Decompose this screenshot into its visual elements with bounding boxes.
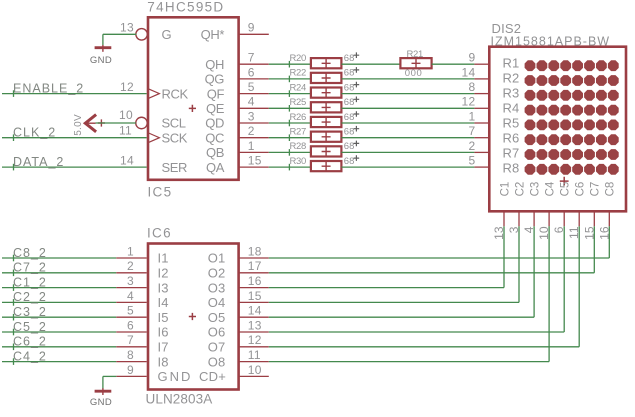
- resistor R28 value 68: [344, 141, 359, 153]
- wire IC6 O6 to display column pin 6: [269, 226, 564, 332]
- svg-text:14: 14: [462, 65, 476, 79]
- svg-text:R21: R21: [407, 49, 424, 60]
- svg-text:I1: I1: [158, 251, 169, 266]
- svg-text:QE: QE: [206, 101, 225, 116]
- wire R27 to display pin 7: [341, 137, 474, 139]
- IC5 pin 11 SCK clock chevron: [149, 133, 160, 142]
- resistor R26: [311, 117, 342, 127]
- resistor R27 value 68: [344, 126, 359, 138]
- resistor R28: [311, 146, 342, 156]
- display row R7 LED dots: [525, 149, 619, 160]
- svg-text:C1: C1: [499, 182, 511, 197]
- IC5 pin 4 QE stub: [239, 107, 269, 109]
- IC6 pin 1 I1 stub: [116, 257, 146, 259]
- svg-text:4: 4: [248, 95, 255, 109]
- svg-text:O1: O1: [208, 251, 226, 266]
- svg-text:68: 68: [344, 68, 355, 79]
- svg-text:R7: R7: [502, 145, 519, 160]
- svg-text:I4: I4: [158, 295, 169, 310]
- wire R22 to display pin 14: [341, 78, 474, 80]
- IC5 pin 2 QC stub: [239, 137, 269, 139]
- svg-text:10: 10: [248, 363, 262, 377]
- display row R4 LED dots: [525, 105, 619, 116]
- wire IC6 O7 to display column pin 11: [269, 226, 579, 346]
- wire IC5 QE to resistor R25: [269, 105, 311, 112]
- svg-text:I3: I3: [158, 280, 169, 295]
- supply +5.0V arrow symbol: [73, 114, 105, 136]
- IC5 pin 12 RCK clock chevron: [149, 89, 160, 98]
- transistor array IC6 ULN2803A box: [148, 244, 239, 390]
- display row R2 LED dots: [525, 75, 619, 86]
- svg-text:C3: C3: [529, 182, 541, 197]
- wire IC6 O5 to display column pin 4: [269, 226, 534, 317]
- IC6 pin 3 I3 stub: [116, 287, 146, 289]
- svg-text:C7_2: C7_2: [13, 261, 47, 275]
- svg-text:C3_2: C3_2: [13, 305, 47, 319]
- ground GND2 symbol: [90, 388, 112, 408]
- svg-text:C8_2: C8_2: [13, 246, 47, 260]
- IC5 origin cross: [189, 105, 196, 112]
- IC6 pin 11 O8 stub: [239, 361, 269, 363]
- svg-text:68: 68: [344, 97, 355, 108]
- wire GND to IC5 pin 13: [103, 34, 136, 45]
- svg-text:GND: GND: [158, 369, 193, 384]
- wire IC6 O2 to display column pin 15: [269, 226, 595, 272]
- display origin cross: [560, 177, 569, 186]
- svg-text:C7: C7: [590, 182, 602, 197]
- wire IC6 O1 to display column pin 16: [269, 226, 610, 258]
- svg-text:I5: I5: [158, 310, 169, 325]
- svg-text:R5: R5: [502, 116, 519, 131]
- IC6 pin 10 CD+ stub: [239, 375, 269, 377]
- wire IC5 QC to resistor R27: [269, 134, 311, 141]
- svg-text:68: 68: [344, 53, 355, 64]
- wire R24 to display pin 8: [341, 93, 474, 95]
- svg-text:2: 2: [469, 139, 476, 153]
- display row R6 LED dots: [525, 134, 619, 145]
- wire net C8_2: [2, 257, 116, 259]
- svg-text:6: 6: [127, 318, 134, 332]
- wire net CLK_2: [2, 137, 147, 139]
- svg-text:8: 8: [127, 348, 134, 362]
- display DIS2 bottom pin 11 stub: [578, 211, 580, 226]
- IC6 pin 13 O6 stub: [239, 331, 269, 333]
- svg-text:9: 9: [469, 51, 476, 65]
- svg-text:QA: QA: [206, 160, 225, 175]
- IC5 pin 10 SCL inverting bubble: [136, 117, 148, 129]
- svg-text:74HC595D: 74HC595D: [147, 0, 224, 14]
- svg-text:R25: R25: [290, 97, 307, 108]
- svg-text:QD: QD: [205, 116, 224, 131]
- node C3_2 label: [13, 305, 47, 321]
- display DIS2 bottom pin 10 stub: [548, 211, 550, 226]
- svg-text:SCL: SCL: [162, 116, 186, 131]
- wire net C2_2: [2, 301, 116, 303]
- IC6 origin cross: [189, 313, 196, 320]
- svg-text:R2: R2: [502, 71, 519, 86]
- wire R25 to display pin 12: [341, 107, 474, 109]
- svg-text:I8: I8: [158, 354, 169, 369]
- svg-text:1: 1: [469, 109, 476, 123]
- svg-text:68: 68: [344, 156, 355, 167]
- display DIS2 pin 8 stub: [474, 93, 489, 95]
- resistor R24 value 68: [344, 82, 359, 94]
- svg-text:R6: R6: [502, 130, 519, 145]
- svg-text:QG: QG: [205, 72, 225, 87]
- svg-text:1: 1: [248, 139, 255, 153]
- svg-text:17: 17: [248, 259, 262, 273]
- resistor R30 value 68: [344, 155, 359, 167]
- wire net C4_2: [2, 361, 116, 363]
- svg-text:68: 68: [344, 127, 355, 138]
- svg-text:11: 11: [248, 348, 261, 362]
- svg-text:O8: O8: [208, 354, 226, 369]
- svg-text:O4: O4: [208, 295, 226, 310]
- resistor R20 value 68: [344, 52, 359, 64]
- display DIS2 pin 2 stub: [474, 151, 489, 153]
- display DIS2 pin 5 stub: [474, 166, 489, 168]
- IC6 pin 5 I5 stub: [116, 316, 146, 318]
- svg-text:9: 9: [248, 21, 255, 35]
- wire R26 to display pin 1: [341, 122, 474, 124]
- svg-text:R22: R22: [290, 68, 307, 79]
- resistor R26 value 68: [344, 111, 359, 123]
- wire IC5 QF to resistor R24: [269, 90, 311, 97]
- resistor R25 value 68: [344, 97, 359, 109]
- wire net DATA_2: [2, 166, 147, 168]
- svg-text:QB: QB: [206, 145, 224, 160]
- svg-text:18: 18: [248, 244, 262, 258]
- svg-text:DATA_2: DATA_2: [13, 155, 64, 169]
- svg-text:C6: C6: [575, 182, 587, 197]
- svg-text:C4_2: C4_2: [13, 349, 47, 363]
- svg-text:O3: O3: [208, 280, 226, 295]
- svg-text:IZM15881APB-BW: IZM15881APB-BW: [491, 35, 611, 49]
- svg-text:ULN2803A: ULN2803A: [146, 392, 213, 407]
- resistor R22: [311, 73, 342, 83]
- wire IC6 O8 to display column pin 10: [269, 226, 549, 361]
- display DIS2 bottom pin 4 stub: [533, 211, 535, 226]
- LED matrix display DIS2 box: [489, 47, 626, 212]
- svg-text:O6: O6: [208, 325, 226, 340]
- svg-text:G: G: [162, 27, 172, 42]
- wire IC5 QD to resistor R26: [269, 120, 311, 127]
- wire IC6 pin 9 to GND2: [103, 376, 116, 388]
- display DIS2 pin 9 stub: [474, 63, 489, 65]
- wire IC5 QB to resistor R28: [269, 149, 311, 156]
- svg-text:RCK: RCK: [162, 86, 189, 101]
- svg-text:R8: R8: [502, 160, 519, 175]
- svg-text:R1: R1: [502, 56, 519, 71]
- display DIS2 bottom pin 15 stub: [593, 211, 595, 226]
- svg-text:14: 14: [248, 304, 262, 318]
- IC6 pin 14 O5 stub: [239, 316, 269, 318]
- svg-text:CLK_2: CLK_2: [13, 126, 56, 140]
- svg-text:R27: R27: [290, 127, 307, 138]
- display DIS2 bottom pin 6 stub: [563, 211, 565, 226]
- IC6 pin 9 GND stub: [116, 375, 146, 377]
- svg-text:C5_2: C5_2: [13, 320, 47, 334]
- IC6 pin 8 I8 stub: [116, 361, 146, 363]
- svg-text:5.0V: 5.0V: [73, 114, 84, 136]
- svg-text:68: 68: [344, 112, 355, 123]
- svg-text:C2_2: C2_2: [13, 290, 47, 304]
- resistor R20: [311, 58, 342, 68]
- svg-text:R3: R3: [502, 86, 519, 101]
- svg-text:O5: O5: [208, 310, 226, 325]
- svg-text:4: 4: [127, 289, 134, 303]
- wire R20 to R21: [341, 63, 400, 65]
- svg-text:5: 5: [127, 304, 134, 318]
- resistor R22 value 68: [344, 67, 359, 79]
- IC6 pin 6 I6 stub: [116, 331, 146, 333]
- IC6 pin 12 O7 stub: [239, 346, 269, 348]
- svg-text:GND: GND: [90, 397, 112, 408]
- node C2_2 label: [13, 290, 47, 306]
- svg-text:8: 8: [469, 80, 476, 94]
- svg-text:13: 13: [248, 318, 262, 332]
- svg-text:SCK: SCK: [162, 130, 188, 145]
- svg-text:I7: I7: [158, 340, 169, 355]
- svg-text:15: 15: [248, 289, 262, 303]
- svg-text:12: 12: [120, 80, 134, 94]
- svg-text:12: 12: [462, 95, 476, 109]
- svg-text:IC5: IC5: [148, 185, 173, 200]
- wire R30 to display pin 5: [341, 166, 474, 168]
- wire net C3_2: [2, 316, 116, 318]
- IC5 pin 15 QA stub: [239, 166, 269, 168]
- display DIS2 bottom pin 3 stub: [518, 211, 520, 226]
- svg-text:15: 15: [248, 154, 262, 168]
- node CLK_2 label: [13, 126, 56, 142]
- wire IC5 QA to resistor R30: [269, 164, 311, 171]
- svg-text:QH: QH: [205, 57, 224, 72]
- svg-text:QF: QF: [207, 86, 225, 101]
- wire IC5 QG to resistor R22: [269, 76, 311, 83]
- wire R28 to display pin 2: [341, 151, 474, 153]
- display DIS2 pin 12 stub: [474, 107, 489, 109]
- wire net C6_2: [2, 346, 116, 348]
- resistor R21: [400, 58, 431, 68]
- node C6_2 label: [13, 335, 47, 351]
- IC6 pin 4 I4 stub: [116, 301, 146, 303]
- svg-text:C1_2: C1_2: [13, 275, 47, 289]
- svg-text:7: 7: [469, 124, 476, 138]
- svg-text:7: 7: [248, 51, 255, 65]
- svg-text:ENABLE_2: ENABLE_2: [13, 81, 84, 95]
- svg-text:IC6: IC6: [147, 226, 172, 241]
- IC5 pin 3 QD stub: [239, 122, 269, 124]
- svg-text:1: 1: [127, 244, 134, 258]
- wire IC5 QH to resistor R20: [269, 61, 311, 68]
- display row R8 LED dots: [525, 164, 619, 175]
- wire net C5_2: [2, 331, 116, 333]
- svg-text:10: 10: [119, 108, 133, 122]
- IC6 pin 15 O4 stub: [239, 301, 269, 303]
- svg-text:R24: R24: [290, 82, 307, 93]
- node ENABLE_2 label: [13, 81, 84, 97]
- svg-text:2: 2: [248, 124, 255, 138]
- wire net C1_2: [2, 287, 116, 289]
- node C1_2 label: [13, 275, 47, 291]
- svg-text:QH*: QH*: [201, 27, 225, 42]
- resistor R30: [311, 161, 342, 171]
- IC6 pin 16 O3 stub: [239, 287, 269, 289]
- svg-text:R28: R28: [290, 141, 307, 152]
- node C8_2 label: [13, 246, 47, 262]
- display DIS2 pin 1 stub: [474, 122, 489, 124]
- svg-text:C2: C2: [514, 182, 526, 197]
- svg-text:6: 6: [248, 65, 255, 79]
- resistor R25: [311, 102, 342, 112]
- IC6 pin 17 O2 stub: [239, 272, 269, 274]
- svg-text:R30: R30: [290, 156, 307, 167]
- display DIS2 bottom pin 13 stub: [503, 211, 505, 226]
- svg-text:3: 3: [248, 109, 255, 123]
- svg-text:3: 3: [127, 274, 134, 288]
- svg-text:CD+: CD+: [199, 369, 226, 384]
- ground GND1 symbol: [90, 45, 112, 66]
- resistor R24: [311, 88, 342, 98]
- svg-text:QC: QC: [205, 130, 224, 145]
- IC5 pin 1 QB stub: [239, 151, 269, 153]
- node C7_2 label: [13, 261, 47, 277]
- svg-text:000: 000: [405, 68, 423, 79]
- wire R21 to display pin 9: [432, 63, 475, 65]
- svg-text:O2: O2: [208, 266, 226, 281]
- svg-text:12: 12: [248, 333, 262, 347]
- svg-text:SER: SER: [162, 160, 188, 175]
- node C4_2 label: [13, 349, 47, 365]
- svg-text:11: 11: [119, 124, 132, 138]
- svg-text:7: 7: [127, 333, 134, 347]
- svg-text:C6_2: C6_2: [13, 335, 47, 349]
- wire IC6 O3 to display column pin 13: [269, 226, 504, 287]
- IC6 pin 7 I7 stub: [116, 346, 146, 348]
- IC5 pin 13 G inverting bubble: [136, 29, 148, 41]
- svg-text:R26: R26: [290, 112, 307, 123]
- svg-text:13: 13: [120, 21, 134, 35]
- svg-text:I2: I2: [158, 266, 169, 281]
- IC5 pin 5 QF stub: [239, 93, 269, 95]
- svg-text:5: 5: [248, 80, 255, 94]
- display row R3 LED dots: [525, 90, 619, 101]
- wire net ENABLE_2: [2, 93, 147, 95]
- svg-text:R20: R20: [290, 53, 307, 64]
- svg-text:C8: C8: [605, 182, 617, 197]
- svg-text:14: 14: [120, 154, 134, 168]
- svg-text:16: 16: [248, 274, 262, 288]
- display row R5 LED dots: [525, 120, 619, 131]
- wire 5.0V supply to IC5 pin 10: [96, 122, 136, 124]
- IC5 pin 6 QG stub: [239, 78, 269, 80]
- wire IC6 O4 to display column pin 3: [269, 226, 519, 302]
- wire net C7_2: [2, 272, 116, 274]
- svg-text:C5: C5: [560, 182, 572, 197]
- svg-text:C4: C4: [544, 181, 556, 196]
- node DATA_2 label: [13, 155, 64, 171]
- display DIS2 pin 7 stub: [474, 137, 489, 139]
- IC IC5 74HC595D shift register box: [148, 17, 239, 180]
- IC6 pin 18 O1 stub: [239, 257, 269, 259]
- display row R1 LED dots: [525, 60, 619, 71]
- svg-text:5: 5: [469, 154, 476, 168]
- node C5_2 label: [13, 320, 47, 336]
- IC5 pin 9 QH* stub: [239, 33, 269, 35]
- svg-text:2: 2: [127, 259, 134, 273]
- display DIS2 pin 14 stub: [474, 78, 489, 80]
- svg-text:O7: O7: [208, 340, 226, 355]
- svg-text:R4: R4: [502, 101, 519, 116]
- display DIS2 bottom pin 16 stub: [608, 211, 610, 226]
- svg-text:GND: GND: [90, 55, 112, 66]
- svg-text:68: 68: [344, 82, 355, 93]
- resistor R27: [311, 132, 342, 142]
- svg-text:9: 9: [127, 363, 134, 377]
- svg-text:I6: I6: [158, 325, 169, 340]
- IC5 pin 7 QH stub: [239, 63, 269, 65]
- IC6 pin 2 I2 stub: [116, 272, 146, 274]
- svg-text:68: 68: [344, 141, 355, 152]
